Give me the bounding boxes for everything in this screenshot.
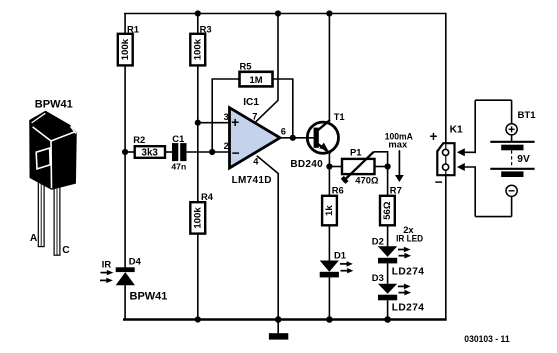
wire P1 left [329, 166, 342, 168]
cell 1 plates [490, 141, 534, 143]
resistor R1 [118, 23, 139, 65]
wire pin4 to ground [257, 156, 278, 320]
BPW41 package drawing [30, 98, 76, 256]
wire R5 right to output [273, 79, 293, 138]
node junction R2 tap [122, 149, 128, 155]
resistor R7 [380, 184, 402, 225]
svg-text:1k: 1k [324, 205, 335, 216]
resistor R2 [133, 134, 165, 159]
svg-text:6: 6 [281, 126, 286, 136]
node top rail junction T1 [326, 10, 332, 16]
light emission arrows [340, 263, 347, 265]
resistor R3 [190, 23, 211, 65]
lead A [38, 178, 44, 247]
svg-text:R2: R2 [133, 134, 145, 145]
IR arrows into D4 [100, 259, 113, 284]
LED D3 [372, 272, 425, 314]
svg-text:−: − [232, 146, 240, 161]
svg-text:D1: D1 [334, 250, 346, 261]
wire D1 to rail [328, 277, 330, 319]
100mA max annotation arrow [385, 131, 413, 182]
node emitter junction P1/R6 [326, 163, 332, 169]
wire emitter down [328, 154, 330, 196]
wire R7 to D2 [387, 225, 389, 247]
resistor R4 [190, 191, 213, 233]
svg-text:K1: K1 [450, 124, 463, 135]
node bottom rail junction R4 [195, 316, 201, 322]
svg-text:BPW41: BPW41 [130, 291, 168, 303]
svg-text:R7: R7 [390, 184, 402, 195]
wire R6 to D1 [328, 225, 330, 260]
svg-text:030103 - 11: 030103 - 11 [464, 334, 510, 345]
svg-text:D4: D4 [129, 256, 142, 267]
connector K1 [430, 124, 463, 189]
potentiometer P1 [342, 146, 388, 185]
svg-text:2: 2 [224, 141, 229, 151]
battery BT1 [475, 100, 536, 216]
svg-text:R6: R6 [332, 184, 344, 195]
svg-text:D3: D3 [372, 272, 384, 283]
svg-text:C: C [62, 245, 70, 256]
node junction P1 right / R7 [385, 163, 391, 169]
svg-text:100k: 100k [120, 38, 131, 60]
svg-text:R5: R5 [240, 61, 252, 72]
capacitor C1 [171, 133, 186, 171]
wire P1 right [375, 166, 388, 168]
svg-text:+: + [231, 115, 239, 130]
svg-text:R3: R3 [200, 23, 212, 34]
wire D3 to rail [387, 300, 389, 319]
node bottom rail junction D1 [326, 316, 333, 323]
svg-text:100k: 100k [192, 207, 203, 229]
package body [30, 112, 76, 190]
wire second branch vertical (R3/R4) [197, 14, 199, 203]
minus terminal symbol [506, 185, 517, 196]
wire R2 to C1 [165, 151, 172, 153]
svg-text:D2: D2 [372, 235, 384, 246]
node pin3 junction [195, 120, 201, 126]
node feedback junction on pin2 wire [209, 149, 215, 155]
op-amp IC1 LM741D [230, 97, 286, 186]
svg-text:R1: R1 [127, 23, 139, 34]
svg-text:56Ω: 56Ω [382, 201, 393, 220]
svg-text:LD274: LD274 [392, 267, 425, 278]
node bottom rail junction D3 [384, 316, 391, 323]
wire battery plus lead with arrow [457, 100, 475, 156]
LED D2 [372, 235, 425, 277]
svg-text:BD240: BD240 [290, 159, 323, 170]
svg-text:100k: 100k [192, 38, 203, 60]
lead C [54, 183, 60, 255]
ground [269, 320, 288, 340]
wire op-amp output to T1 base [280, 137, 314, 139]
transistor T1 BD240 [290, 111, 344, 170]
svg-text:LD274: LD274 [392, 303, 425, 314]
window [36, 148, 50, 169]
svg-text:3k3: 3k3 [142, 148, 159, 159]
wire top supply rail [124, 13, 447, 15]
resistor R5 [240, 61, 273, 87]
wire C1 to pin2 [186, 151, 229, 153]
svg-text:1M: 1M [249, 74, 262, 85]
node output junction [290, 135, 296, 141]
plus terminal symbol [506, 124, 517, 135]
wire op-amp pin3 input [198, 122, 230, 124]
wire K1 branch vertical [445, 14, 447, 320]
svg-text:IR: IR [102, 259, 112, 270]
wire bottom ground rail [123, 318, 447, 321]
wire R2 left [125, 151, 135, 153]
node bottom rail junction pin4 [275, 316, 282, 323]
svg-text:BT1: BT1 [518, 110, 537, 121]
svg-text:4: 4 [253, 157, 259, 167]
cell 2 plates [490, 168, 534, 170]
svg-text:7: 7 [252, 112, 257, 122]
svg-text:A: A [30, 233, 38, 244]
wire battery minus lead with arrow [457, 163, 475, 217]
pin 1 (+) [443, 149, 449, 155]
node top rail junction R3 [195, 10, 201, 16]
svg-text:3: 3 [224, 112, 229, 122]
svg-text:LM741D: LM741D [232, 175, 272, 186]
svg-text:R4: R4 [201, 191, 214, 202]
wire R7 top [387, 167, 389, 196]
svg-text:IR LED: IR LED [396, 232, 423, 243]
photodiode D4 [116, 256, 168, 303]
svg-text:+: + [430, 129, 438, 144]
svg-text:max: max [388, 139, 408, 150]
svg-text:−: − [435, 175, 443, 190]
svg-text:470Ω: 470Ω [355, 174, 379, 185]
svg-text:47n: 47n [171, 161, 186, 171]
svg-text:C1: C1 [172, 133, 184, 144]
wire left branch vertical (R1/D4) [124, 14, 126, 269]
pin 2 (-) [443, 164, 449, 170]
svg-text:9V: 9V [517, 154, 530, 165]
node top rail junction pin7 [275, 10, 281, 16]
svg-text:BPW41: BPW41 [35, 98, 73, 110]
svg-text:P1: P1 [350, 146, 361, 157]
wire collector to top rail [328, 14, 330, 121]
wire pin7 supply [256, 14, 278, 122]
LED D1 [320, 250, 354, 278]
svg-text:T1: T1 [334, 111, 345, 122]
resistor R6 [322, 184, 344, 225]
wire feedback loop R5 [212, 79, 239, 152]
svg-text:IC1: IC1 [243, 97, 259, 108]
wire D2 to D3 [387, 263, 389, 283]
